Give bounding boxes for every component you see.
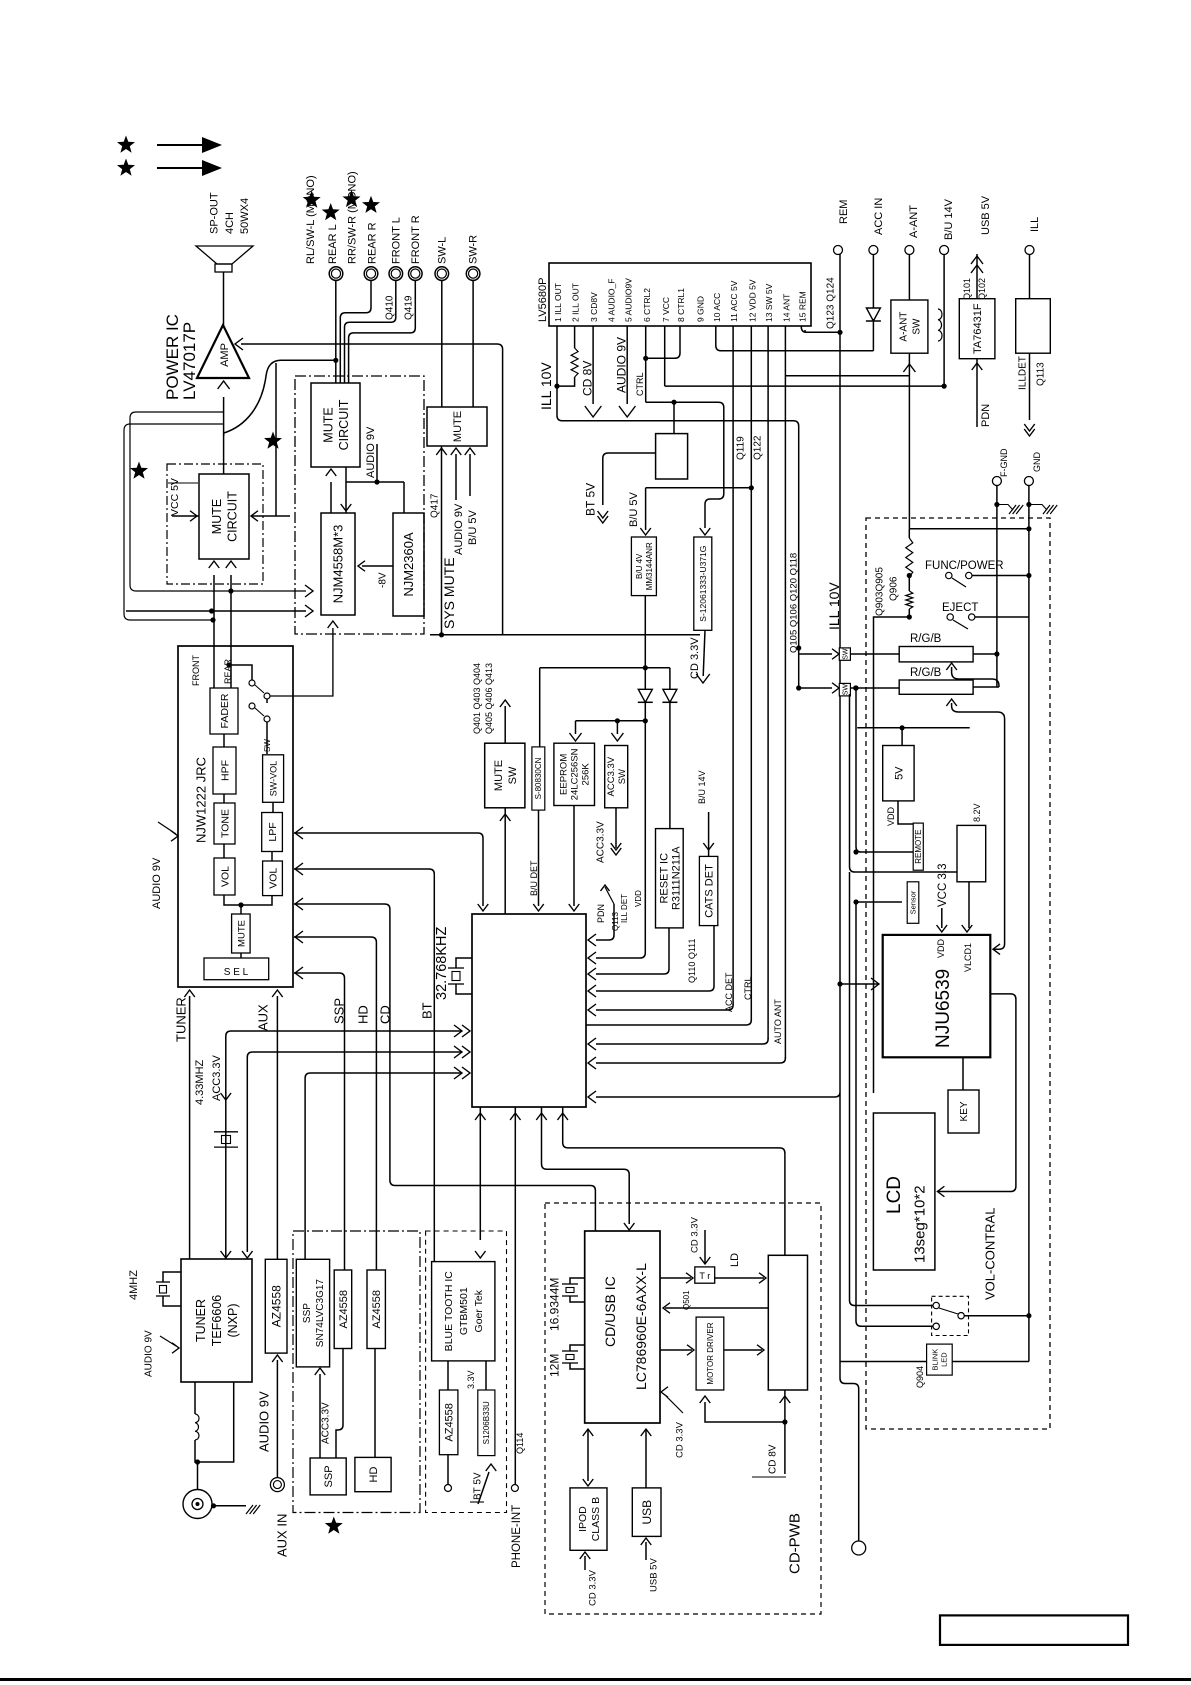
svg-text:IPOD: IPOD — [577, 1506, 589, 1532]
svg-text:Q903Q905: Q903Q905 — [875, 567, 886, 616]
svg-text:B/U 5V: B/U 5V — [467, 509, 479, 545]
svg-text:MUTE: MUTE — [236, 920, 247, 947]
svg-text:AZ4558: AZ4558 — [338, 1290, 350, 1329]
svg-text:PDN: PDN — [980, 404, 992, 427]
svg-text:Q405 Q406 Q413: Q405 Q406 Q413 — [484, 663, 494, 734]
svg-text:LED: LED — [940, 1352, 949, 1367]
svg-text:VOL-CONTRAL: VOL-CONTRAL — [983, 1208, 998, 1300]
svg-text:CIRCUIT: CIRCUIT — [337, 399, 351, 450]
svg-text:5 AUDIO9V: 5 AUDIO9V — [623, 278, 633, 322]
svg-text:B/U 14V: B/U 14V — [943, 198, 955, 240]
svg-text:AMP: AMP — [219, 343, 231, 367]
svg-text:VOL: VOL — [267, 868, 279, 889]
svg-text:LPF: LPF — [267, 822, 279, 841]
svg-text:SW-L: SW-L — [436, 237, 448, 264]
svg-text:S-12061333-U371G: S-12061333-U371G — [698, 546, 708, 622]
svg-text:BLINK: BLINK — [931, 1349, 940, 1371]
svg-text:CD 3.3V: CD 3.3V — [587, 1569, 598, 1606]
svg-text:Q113: Q113 — [1036, 362, 1047, 386]
svg-text:Q904: Q904 — [915, 1366, 925, 1388]
svg-text:SW: SW — [912, 318, 923, 335]
svg-text:16.9344M: 16.9344M — [547, 1278, 561, 1331]
svg-text:NJW1222 JRC: NJW1222 JRC — [194, 757, 209, 843]
svg-text:SN74LVC3G17: SN74LVC3G17 — [315, 1279, 326, 1348]
svg-text:SW-VOL: SW-VOL — [268, 761, 278, 796]
svg-text:LCD: LCD — [884, 1176, 905, 1214]
svg-text:VCC 3.3: VCC 3.3 — [937, 864, 949, 907]
svg-text:AUDIO 9V: AUDIO 9V — [151, 857, 163, 909]
svg-text:Q119: Q119 — [736, 436, 747, 460]
svg-text:EJECT: EJECT — [942, 602, 978, 614]
svg-text:7 VCC: 7 VCC — [661, 297, 671, 322]
svg-text:BLUE TOOTH IC: BLUE TOOTH IC — [443, 1271, 455, 1352]
svg-text:TUNER: TUNER — [174, 997, 189, 1042]
svg-text:4 AUDIO_F: 4 AUDIO_F — [607, 279, 617, 322]
svg-text:ILL 10V: ILL 10V — [826, 582, 842, 630]
svg-text:LV47017P: LV47017P — [180, 322, 199, 400]
svg-text:FRONT: FRONT — [191, 655, 201, 686]
svg-text:Q419: Q419 — [404, 295, 415, 320]
svg-text:Q417: Q417 — [430, 493, 441, 518]
svg-text:RESET IC: RESET IC — [658, 853, 670, 904]
svg-text:AUDIO 9V: AUDIO 9V — [453, 503, 465, 555]
svg-text:AUX: AUX — [256, 1004, 271, 1031]
svg-text:RL/SW-L (MONO): RL/SW-L (MONO) — [305, 175, 317, 264]
svg-text:TUNER: TUNER — [194, 1299, 208, 1342]
svg-text:S-80830CN: S-80830CN — [534, 757, 543, 799]
svg-text:1 ILL OUT: 1 ILL OUT — [553, 283, 563, 322]
svg-text:4.33MHZ: 4.33MHZ — [194, 1059, 206, 1105]
svg-text:SW: SW — [842, 648, 849, 660]
svg-text:ILLDET: ILLDET — [1018, 356, 1029, 390]
svg-text:AUDIO 9V: AUDIO 9V — [365, 426, 377, 478]
svg-text:VOL: VOL — [219, 866, 231, 887]
svg-text:NJM2360A: NJM2360A — [401, 532, 416, 597]
svg-text:MUTE: MUTE — [493, 760, 505, 791]
svg-text:HD: HD — [368, 1467, 380, 1483]
svg-text:CD 3.3V: CD 3.3V — [689, 1216, 700, 1253]
svg-text:CD 3.3V: CD 3.3V — [674, 1421, 685, 1458]
svg-text:3 CD8V: 3 CD8V — [589, 292, 599, 322]
svg-text:CATS DET: CATS DET — [704, 864, 716, 918]
svg-text:9 GND: 9 GND — [696, 296, 706, 322]
svg-text:MM3144ANR: MM3144ANR — [645, 542, 654, 590]
svg-text:ILL DET: ILL DET — [620, 894, 629, 923]
svg-text:VDD: VDD — [886, 806, 896, 826]
svg-text:Q113: Q113 — [611, 911, 620, 931]
svg-text:T r: T r — [699, 1271, 710, 1281]
svg-text:AUDIO 9V: AUDIO 9V — [614, 337, 628, 393]
svg-text:CD: CD — [378, 1005, 393, 1024]
svg-text:S1206B33U: S1206B33U — [482, 1401, 491, 1444]
svg-text:FRONT L: FRONT L — [390, 217, 402, 264]
svg-text:KEY: KEY — [959, 1101, 970, 1121]
svg-text:13 SW 5V: 13 SW 5V — [764, 283, 774, 322]
svg-text:Q102: Q102 — [977, 278, 987, 300]
svg-text:12M: 12M — [547, 1354, 561, 1377]
svg-text:CD 8V: CD 8V — [580, 361, 594, 396]
svg-text:F-GND: F-GND — [999, 448, 1009, 477]
svg-text:AZ4558: AZ4558 — [371, 1290, 383, 1329]
svg-text:CD/USB IC: CD/USB IC — [602, 1276, 618, 1347]
svg-text:8.2V: 8.2V — [972, 803, 982, 822]
svg-text:CD 3.3V: CD 3.3V — [689, 637, 701, 679]
svg-text:SP-OUT: SP-OUT — [208, 192, 220, 234]
svg-text:HPF: HPF — [219, 760, 231, 781]
svg-text:256K: 256K — [581, 763, 592, 786]
svg-text:ACC3.3V: ACC3.3V — [321, 1402, 332, 1444]
svg-text:TEF6606: TEF6606 — [210, 1295, 224, 1346]
svg-text:GND: GND — [1032, 452, 1042, 473]
svg-text:12 VDD 5V: 12 VDD 5V — [747, 279, 757, 322]
svg-text:8 CTRL1: 8 CTRL1 — [676, 288, 686, 322]
svg-text:4MHZ: 4MHZ — [128, 1270, 140, 1300]
svg-text:VDD: VDD — [936, 938, 946, 958]
svg-text:B/U 5V: B/U 5V — [628, 491, 640, 527]
svg-text:Q122: Q122 — [753, 435, 764, 460]
svg-text:R/G/B: R/G/B — [910, 633, 942, 645]
svg-text:VCC 5V: VCC 5V — [169, 478, 181, 516]
svg-text:32.768KHZ: 32.768KHZ — [434, 927, 450, 1000]
svg-text:CTRL: CTRL — [635, 372, 645, 396]
svg-text:SSP: SSP — [332, 998, 347, 1024]
svg-text:Q114: Q114 — [515, 1433, 525, 1454]
svg-text:RR/SW-R (MONO): RR/SW-R (MONO) — [346, 171, 358, 264]
svg-text:FADER: FADER — [219, 693, 231, 728]
svg-text:NJM4558M*3: NJM4558M*3 — [331, 525, 346, 604]
svg-text:S E L: S E L — [224, 967, 249, 978]
svg-text:REM: REM — [838, 200, 850, 224]
svg-text:FUNC/POWER: FUNC/POWER — [925, 560, 1004, 572]
svg-text:FRONT R: FRONT R — [410, 215, 422, 264]
svg-text:B/U 4V: B/U 4V — [635, 553, 644, 579]
svg-text:Q105 Q106 Q120 Q118: Q105 Q106 Q120 Q118 — [788, 553, 799, 653]
svg-text:Q101: Q101 — [962, 278, 972, 300]
svg-text:BT 5V: BT 5V — [583, 483, 597, 516]
svg-text:50WX4: 50WX4 — [239, 198, 251, 234]
svg-text:GTBM501: GTBM501 — [458, 1287, 470, 1335]
svg-text:REAR R: REAR R — [366, 222, 378, 264]
svg-text:Q906: Q906 — [889, 576, 900, 601]
svg-text:BT: BT — [420, 1002, 435, 1019]
svg-text:5V: 5V — [893, 766, 905, 780]
svg-text:USB: USB — [640, 1500, 654, 1525]
svg-text:B/U DET: B/U DET — [529, 860, 539, 896]
svg-text:6 CTRL2: 6 CTRL2 — [642, 288, 652, 322]
svg-text:A-ANT: A-ANT — [899, 312, 910, 342]
svg-text:Q401 Q403 Q404: Q401 Q403 Q404 — [472, 663, 482, 734]
svg-text:-8V: -8V — [378, 572, 389, 588]
svg-text:SSP: SSP — [323, 1465, 335, 1487]
svg-text:B/U 14V: B/U 14V — [697, 770, 707, 804]
svg-text:PHONE-INT: PHONE-INT — [511, 1505, 523, 1568]
svg-text:MUTE: MUTE — [321, 407, 335, 442]
svg-text:AUTO ANT: AUTO ANT — [773, 999, 783, 1044]
svg-text:USB 5V: USB 5V — [648, 1558, 659, 1592]
svg-text:(NXP): (NXP) — [226, 1303, 240, 1337]
svg-text:NJU6539: NJU6539 — [933, 969, 954, 1048]
svg-text:VDD: VDD — [634, 890, 643, 907]
svg-text:Q110 Q111: Q110 Q111 — [687, 938, 697, 983]
svg-text:3.3V: 3.3V — [466, 1370, 476, 1389]
svg-text:REAR: REAR — [223, 658, 233, 684]
svg-text:ILL 10V: ILL 10V — [538, 362, 554, 410]
svg-text:USB 5V: USB 5V — [980, 195, 992, 235]
svg-text:TA76431F: TA76431F — [972, 303, 984, 354]
svg-text:AZ4558: AZ4558 — [269, 1285, 283, 1327]
svg-text:ACC3.3V: ACC3.3V — [596, 821, 607, 863]
svg-text:REAR L: REAR L — [327, 224, 339, 264]
svg-text:A-ANT: A-ANT — [908, 205, 920, 238]
svg-text:Q501: Q501 — [682, 1290, 691, 1310]
svg-text:HD: HD — [356, 1005, 371, 1024]
svg-text:R3111N211A: R3111N211A — [670, 846, 682, 910]
svg-text:Sensor: Sensor — [909, 890, 918, 914]
svg-text:Q123 Q124: Q123 Q124 — [826, 277, 837, 329]
svg-text:LV5680P: LV5680P — [537, 278, 549, 322]
svg-text:BT 5V: BT 5V — [473, 1472, 484, 1500]
svg-text:AUDIO 9V: AUDIO 9V — [257, 1391, 272, 1452]
svg-text:CD 8V: CD 8V — [768, 1444, 779, 1474]
svg-text:MUTE: MUTE — [452, 411, 464, 442]
svg-text:REMOTE: REMOTE — [914, 830, 923, 864]
svg-text:MUTE: MUTE — [210, 499, 224, 534]
svg-text:Q410: Q410 — [385, 295, 396, 320]
svg-text:SW: SW — [617, 769, 628, 784]
svg-text:R/G/B: R/G/B — [910, 667, 942, 679]
svg-text:LC786960E-6AXX-L: LC786960E-6AXX-L — [633, 1263, 649, 1390]
svg-text:EEPROM: EEPROM — [559, 754, 570, 795]
svg-text:24LC256SN: 24LC256SN — [570, 748, 581, 800]
svg-text:13seg*10*2: 13seg*10*2 — [911, 1185, 928, 1263]
svg-text:10 ACC: 10 ACC — [712, 293, 722, 322]
svg-text:MOTOR DRIVER: MOTOR DRIVER — [706, 1322, 715, 1384]
svg-text:SW: SW — [842, 684, 849, 696]
svg-text:SW-R: SW-R — [467, 235, 479, 264]
svg-text:4CH: 4CH — [224, 212, 236, 234]
svg-text:ACC IN: ACC IN — [873, 198, 885, 235]
svg-text:SW: SW — [507, 766, 519, 784]
svg-text:TONE: TONE — [219, 809, 231, 838]
svg-text:AZ4558: AZ4558 — [444, 1403, 456, 1442]
svg-text:ACC3.3V: ACC3.3V — [606, 756, 617, 796]
svg-text:15 REM: 15 REM — [797, 291, 807, 322]
svg-text:ILL: ILL — [1029, 217, 1041, 232]
svg-text:ACC3.3V: ACC3.3V — [211, 1054, 223, 1101]
svg-text:VLCD1: VLCD1 — [963, 943, 973, 972]
svg-text:AUDIO 9V: AUDIO 9V — [144, 1330, 155, 1377]
svg-text:PDN: PDN — [596, 904, 606, 923]
svg-text:CD-PWB: CD-PWB — [786, 1513, 803, 1574]
svg-text:LD: LD — [729, 1253, 741, 1267]
svg-text:CLASS B: CLASS B — [590, 1497, 602, 1541]
svg-text:Goer Tek: Goer Tek — [473, 1289, 485, 1332]
svg-text:CIRCUIT: CIRCUIT — [225, 491, 239, 542]
svg-text:2 ILL OUT: 2 ILL OUT — [571, 283, 581, 322]
svg-text:AUX IN: AUX IN — [275, 1514, 290, 1557]
svg-text:11 ACC 5V: 11 ACC 5V — [729, 280, 739, 322]
svg-text:SSP: SSP — [302, 1303, 313, 1323]
svg-text:14 ANT: 14 ANT — [781, 294, 791, 322]
svg-text:SYS MUTE: SYS MUTE — [441, 557, 457, 629]
